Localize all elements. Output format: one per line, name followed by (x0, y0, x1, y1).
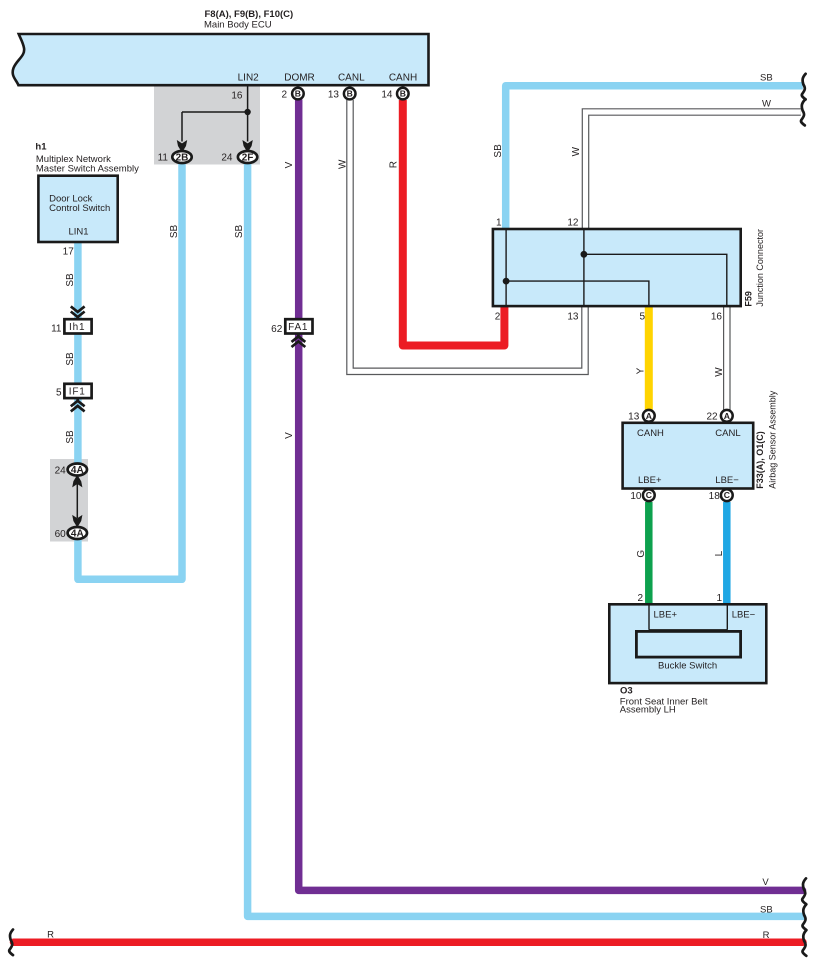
svg-text:LBE+: LBE+ (654, 610, 678, 621)
svg-text:SB: SB (169, 225, 180, 239)
wire Y junction pin 5 down to airbag 13A (645, 306, 653, 410)
wire G airbag 10C to belt pin 2 (645, 502, 653, 606)
svg-text:SB: SB (65, 430, 76, 444)
svg-text:CANH: CANH (389, 72, 417, 83)
wire pin16 stub with junction (247, 86, 249, 142)
belt internal pin lines (648, 605, 650, 630)
junction connector F59 box (493, 229, 741, 306)
svg-text:Control Switch: Control Switch (49, 203, 110, 214)
svg-text:A: A (646, 411, 652, 421)
svg-text:1: 1 (496, 218, 502, 229)
svg-text:SB: SB (65, 273, 76, 287)
svg-text:R: R (763, 930, 770, 941)
svg-text:Buckle Switch: Buckle Switch (658, 661, 717, 672)
svg-text:CANH: CANH (637, 428, 664, 439)
svg-text:17: 17 (63, 246, 75, 257)
svg-text:Y: Y (635, 367, 646, 374)
svg-text:B: B (400, 89, 406, 99)
svg-text:DOMR: DOMR (284, 72, 315, 83)
junction internal branch to pin 5 (506, 281, 649, 305)
svg-text:SB: SB (493, 144, 504, 158)
wire SB from top break left and down to junction pin 1 (506, 86, 803, 229)
wire SB from LIN1 pin17 down, right, up to 2B (74, 242, 82, 463)
svg-text:IF1: IF1 (69, 387, 86, 398)
svg-text:R: R (389, 161, 400, 168)
svg-text:W: W (714, 367, 725, 377)
svg-text:W: W (762, 99, 771, 110)
svg-text:Assembly LH: Assembly LH (620, 704, 676, 715)
svg-text:F59: F59 (744, 291, 754, 307)
svg-text:Junction Connector: Junction Connector (755, 229, 765, 307)
wire R bottom rail (14, 938, 804, 946)
node dot junction 1-2 (503, 278, 510, 285)
break glyph R bottom right (802, 930, 806, 956)
chevron double arrow up below FA1 (297, 335, 300, 339)
svg-text:Master Switch Assembly: Master Switch Assembly (36, 164, 139, 175)
wire R CANH down right up to junction pin 2 (403, 100, 505, 346)
svg-text:24: 24 (55, 466, 67, 477)
wire W junction pin 12 up and right to break (outline) (586, 112, 801, 229)
svg-text:13: 13 (628, 411, 640, 422)
break glyph SB top (802, 74, 806, 100)
svg-text:B: B (347, 89, 353, 99)
connector oval 2F (238, 151, 257, 163)
svg-text:2F: 2F (242, 153, 254, 164)
svg-text:Ih1: Ih1 (69, 322, 85, 333)
svg-text:O3: O3 (620, 686, 633, 697)
svg-text:11: 11 (51, 324, 62, 335)
svg-text:h1: h1 (35, 142, 47, 153)
connector box Ih1 (64, 319, 91, 333)
junction internal line pins 1-2 (505, 230, 507, 305)
main body ECU box F8 F9 F10 (13, 34, 429, 85)
svg-text:L: L (714, 550, 725, 556)
svg-text:2: 2 (495, 312, 501, 323)
svg-text:LIN2: LIN2 (238, 72, 260, 83)
svg-text:18: 18 (709, 491, 721, 502)
svg-text:2: 2 (281, 89, 287, 100)
svg-text:CANL: CANL (338, 72, 365, 83)
svg-text:5: 5 (639, 312, 645, 323)
svg-text:W: W (571, 146, 582, 156)
wire L airbag 18C to belt pin 1 (723, 502, 731, 606)
svg-text:60: 60 (55, 529, 67, 540)
svg-text:4A: 4A (71, 529, 84, 540)
arrowhead into 2F (242, 140, 252, 153)
svg-text:C: C (646, 490, 652, 500)
svg-text:A: A (724, 411, 730, 421)
svg-text:CANL: CANL (715, 428, 740, 439)
junction internal line pins 12-13 (583, 230, 585, 305)
airbag sensor assembly box (623, 423, 754, 489)
svg-text:2: 2 (637, 593, 643, 604)
gray highlight box LIN2 branch (154, 87, 260, 165)
svg-text:G: G (636, 550, 647, 558)
svg-text:16: 16 (711, 312, 723, 323)
arrowhead into 2B (177, 140, 187, 153)
svg-text:LIN1: LIN1 (69, 227, 89, 238)
svg-text:F8(A), F9(B), F10(C): F8(A), F9(B), F10(C) (205, 9, 294, 20)
svg-text:13: 13 (328, 89, 340, 100)
node dot junction 12-13 (581, 251, 588, 258)
svg-text:11: 11 (158, 153, 169, 164)
junction internal branch to pin 16 (584, 254, 727, 305)
svg-text:SB: SB (760, 904, 773, 915)
svg-text:SB: SB (65, 352, 76, 366)
svg-text:SB: SB (234, 225, 245, 239)
break glyph V bottom (802, 878, 806, 904)
svg-text:V: V (762, 877, 769, 888)
break glyph R bottom left (9, 930, 13, 956)
svg-text:SB: SB (760, 72, 773, 83)
svg-text:LBE−: LBE− (732, 610, 756, 621)
svg-text:W: W (337, 159, 348, 169)
svg-text:B: B (295, 89, 301, 99)
break glyph SB bottom (802, 904, 806, 930)
chevron double arrow up below IF1 (76, 398, 79, 402)
svg-text:2B: 2B (176, 153, 189, 164)
svg-text:C: C (724, 490, 730, 500)
wire W junction pin 16 down to airbag 22A (outline) (723, 306, 731, 410)
connector box IF1 (64, 384, 91, 398)
buckle switch inner box (636, 631, 740, 657)
wire SB from 4A lower to 2B (78, 164, 182, 579)
svg-text:LBE−: LBE− (715, 475, 739, 486)
svg-text:F33(A), O1(C): F33(A), O1(C) (755, 431, 765, 489)
svg-text:V: V (284, 432, 295, 439)
svg-text:62: 62 (271, 324, 283, 335)
svg-text:Main Body ECU: Main Body ECU (204, 19, 272, 30)
front seat inner belt box O3 (609, 604, 766, 683)
svg-text:24: 24 (221, 153, 233, 164)
svg-text:FA1: FA1 (288, 322, 308, 333)
connector oval 2B (172, 151, 191, 163)
break glyph W top (801, 100, 805, 126)
wire V DOMR down and right to break (299, 100, 803, 890)
wire SB from 2F down to bottom and right to break (248, 164, 803, 916)
node junction dot pin16 (244, 109, 250, 115)
door lock control switch box (38, 176, 117, 242)
svg-text:1: 1 (716, 593, 722, 604)
svg-text:R: R (47, 929, 54, 940)
svg-text:LBE+: LBE+ (638, 475, 662, 486)
svg-text:13: 13 (567, 312, 579, 323)
svg-text:12: 12 (567, 218, 579, 229)
svg-text:10: 10 (630, 491, 642, 502)
wire W CANL down right up to junction pin 13 (outline) (350, 100, 585, 371)
svg-text:4A: 4A (71, 465, 84, 476)
double arrow between 4A ovals (76, 484, 78, 518)
svg-text:5: 5 (56, 388, 62, 399)
svg-text:16: 16 (231, 90, 243, 101)
svg-text:22: 22 (706, 411, 718, 422)
gray highlight box 4A connectors (50, 459, 88, 542)
svg-text:14: 14 (381, 89, 393, 100)
chevron double arrow down above Ih1 (71, 306, 85, 317)
svg-text:Airbag Sensor Assembly: Airbag Sensor Assembly (768, 390, 778, 489)
svg-text:V: V (284, 161, 295, 168)
